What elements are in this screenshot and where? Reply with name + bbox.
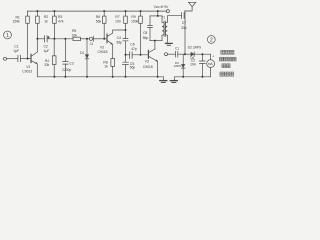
resistor R2 <box>36 11 40 39</box>
svg-text:J1: J1 <box>90 42 94 46</box>
label R4 <box>44 59 49 67</box>
diode D1 <box>85 39 89 77</box>
label R5 <box>72 29 78 38</box>
resistor R7 <box>124 11 128 30</box>
svg-text:+: + <box>212 54 214 58</box>
resistor R9 <box>139 11 143 55</box>
capacitor C6 <box>130 52 132 59</box>
transformer T1 core <box>164 21 165 36</box>
label C8 <box>143 31 149 40</box>
svg-text:Vcc=6~9V: Vcc=6~9V <box>154 5 169 9</box>
wire base V1 <box>20 58 31 60</box>
transistor V2 <box>107 33 113 44</box>
ground right rail <box>170 77 177 83</box>
svg-text:56p: 56p <box>143 36 149 40</box>
svg-text:R7: R7 <box>115 15 119 19</box>
label V3 <box>143 59 153 69</box>
label C6 <box>130 42 137 51</box>
wire V2 collector <box>113 30 126 33</box>
svg-text:C9013: C9013 <box>22 70 32 74</box>
wire R5 to J1 <box>81 38 90 40</box>
label C2 <box>44 44 50 53</box>
wire T1 feed stub <box>150 11 162 16</box>
transistor V1 <box>31 52 37 64</box>
label R1 <box>13 16 21 24</box>
label D2 <box>188 46 201 50</box>
label D4 <box>190 56 194 60</box>
wire V3 collector riser <box>154 41 156 49</box>
wire V3 emitter <box>157 61 159 77</box>
label T1 <box>161 15 165 19</box>
antenna <box>185 2 196 11</box>
jack J1 <box>89 36 93 41</box>
svg-text:100: 100 <box>115 20 121 24</box>
svg-text:C4: C4 <box>117 36 121 40</box>
svg-text:R8: R8 <box>103 60 107 64</box>
ground T1 secondary <box>166 43 173 45</box>
diode D2 <box>191 52 194 56</box>
capacitor C7 <box>182 13 185 19</box>
resistor R1 <box>26 11 30 59</box>
wire collector node A <box>37 38 44 40</box>
svg-text:150k: 150k <box>131 20 139 24</box>
label C1 <box>13 45 19 54</box>
svg-text:1µF: 1µF <box>13 49 19 53</box>
wire top supply rail <box>28 10 167 12</box>
label C1 detector <box>175 46 179 50</box>
svg-text:1k: 1k <box>104 65 108 69</box>
capacitor C8 <box>148 16 153 41</box>
label V2 <box>98 45 108 53</box>
capacitor C1 <box>18 55 21 61</box>
svg-text:C7: C7 <box>182 21 186 25</box>
junction dots bottom rail <box>53 76 55 78</box>
svg-text:V2: V2 <box>100 45 104 49</box>
label R9 <box>131 15 139 23</box>
wire V1 collector <box>36 39 38 52</box>
label D1 <box>80 51 84 55</box>
svg-text:C9018: C9018 <box>98 50 108 54</box>
label R6 <box>96 15 102 23</box>
resistor R6 <box>102 11 106 39</box>
Vcc terminal circle <box>166 10 169 13</box>
wire detector <box>178 53 191 55</box>
svg-text:C1: C1 <box>175 46 179 50</box>
svg-text:R5: R5 <box>72 29 76 33</box>
label R2 <box>44 15 48 23</box>
wire V3 base right <box>132 54 148 56</box>
annotation chinese text meter <box>219 50 236 76</box>
junction dots mid wire <box>36 38 38 40</box>
svg-text:R6: R6 <box>96 15 100 19</box>
svg-text:2: 2 <box>210 37 213 43</box>
label C2 detector <box>190 59 196 67</box>
svg-text:V3: V3 <box>145 59 149 63</box>
node 2 marker <box>207 36 215 44</box>
capacitor C3 <box>63 39 68 77</box>
capacitor C9 <box>200 54 206 77</box>
svg-text:R9: R9 <box>131 15 135 19</box>
resistor R4 <box>52 39 56 77</box>
svg-text:2200p: 2200p <box>62 68 71 72</box>
wire V1 emitter <box>36 64 38 77</box>
junction dots R7 node <box>125 29 127 31</box>
svg-text:C9018: C9018 <box>143 65 153 69</box>
svg-text:C8: C8 <box>143 31 147 35</box>
svg-text:104: 104 <box>190 63 196 67</box>
capacitor C5 <box>123 55 129 77</box>
wire V3 base left <box>126 54 130 56</box>
label R3 <box>58 15 64 23</box>
label J1 <box>90 42 94 46</box>
svg-text:C2: C2 <box>44 44 48 48</box>
resistor R3 <box>53 11 57 39</box>
label mA <box>208 62 214 66</box>
diode D3 <box>181 54 185 77</box>
svg-text:R2: R2 <box>44 15 48 19</box>
capacitor C10 <box>175 51 177 57</box>
svg-text:47p: 47p <box>131 47 137 51</box>
svg-text:C3: C3 <box>69 61 73 65</box>
label Vcc <box>154 5 169 9</box>
svg-text:1k: 1k <box>44 20 48 24</box>
wire antenna down <box>184 11 186 54</box>
svg-text:C1: C1 <box>14 45 18 49</box>
terminal input circle <box>4 57 7 60</box>
terminal output circle <box>165 53 168 56</box>
capacitor C4 <box>123 30 128 55</box>
wire input <box>7 58 18 60</box>
svg-text:10k: 10k <box>72 33 78 37</box>
label C2 plus <box>48 35 50 39</box>
svg-text:D2 2AP9: D2 2AP9 <box>188 46 201 50</box>
junction dots V3 base wire <box>125 54 127 56</box>
svg-text:150k: 150k <box>13 20 21 24</box>
svg-text:56k: 56k <box>96 20 102 24</box>
transformer T1 primary <box>162 16 164 41</box>
svg-text:47k: 47k <box>58 20 64 24</box>
label C7 <box>181 21 187 30</box>
svg-text:56p: 56p <box>130 66 136 70</box>
capacitor C2 <box>45 36 48 42</box>
svg-text:V1: V1 <box>26 65 30 69</box>
svg-text:R3: R3 <box>58 15 62 19</box>
wire V2 emitter <box>112 44 114 58</box>
resistor R5 <box>73 37 81 40</box>
label R8 <box>103 60 108 68</box>
svg-text:1: 1 <box>6 33 9 39</box>
wire bottom rail left <box>37 76 163 78</box>
label D3 <box>174 61 182 68</box>
svg-text:33p: 33p <box>181 26 187 30</box>
wire bottom rail right <box>175 76 211 78</box>
label V1 <box>22 65 32 74</box>
svg-text:C6: C6 <box>130 42 134 46</box>
label meter plus <box>212 54 214 58</box>
meter mA <box>207 54 215 77</box>
junction dots detector wire <box>184 53 186 55</box>
label R7 <box>115 15 121 23</box>
svg-text:33k: 33k <box>44 63 49 67</box>
svg-text:T1: T1 <box>161 15 165 19</box>
ground left rail <box>160 77 167 83</box>
svg-text:2AP9: 2AP9 <box>174 64 182 68</box>
label C3 <box>62 61 74 72</box>
transistor V3 <box>148 49 157 61</box>
svg-text:D1: D1 <box>80 51 84 55</box>
wire T1 bottom <box>150 40 162 42</box>
label C4 <box>116 36 122 45</box>
wire D2 to meter <box>194 53 210 55</box>
svg-text:56p: 56p <box>116 41 122 45</box>
junction dots top rail <box>36 10 38 12</box>
wire output <box>168 53 176 55</box>
transformer T1 secondary <box>165 16 181 43</box>
wire J1 to V2 base <box>93 38 107 40</box>
junction dot base wire V1 <box>27 58 29 60</box>
label C5 <box>130 62 136 70</box>
node 1 marker <box>4 31 12 39</box>
resistor R8 <box>111 58 115 76</box>
wire node A to node B <box>47 38 73 40</box>
svg-text:1µF: 1µF <box>44 49 50 53</box>
